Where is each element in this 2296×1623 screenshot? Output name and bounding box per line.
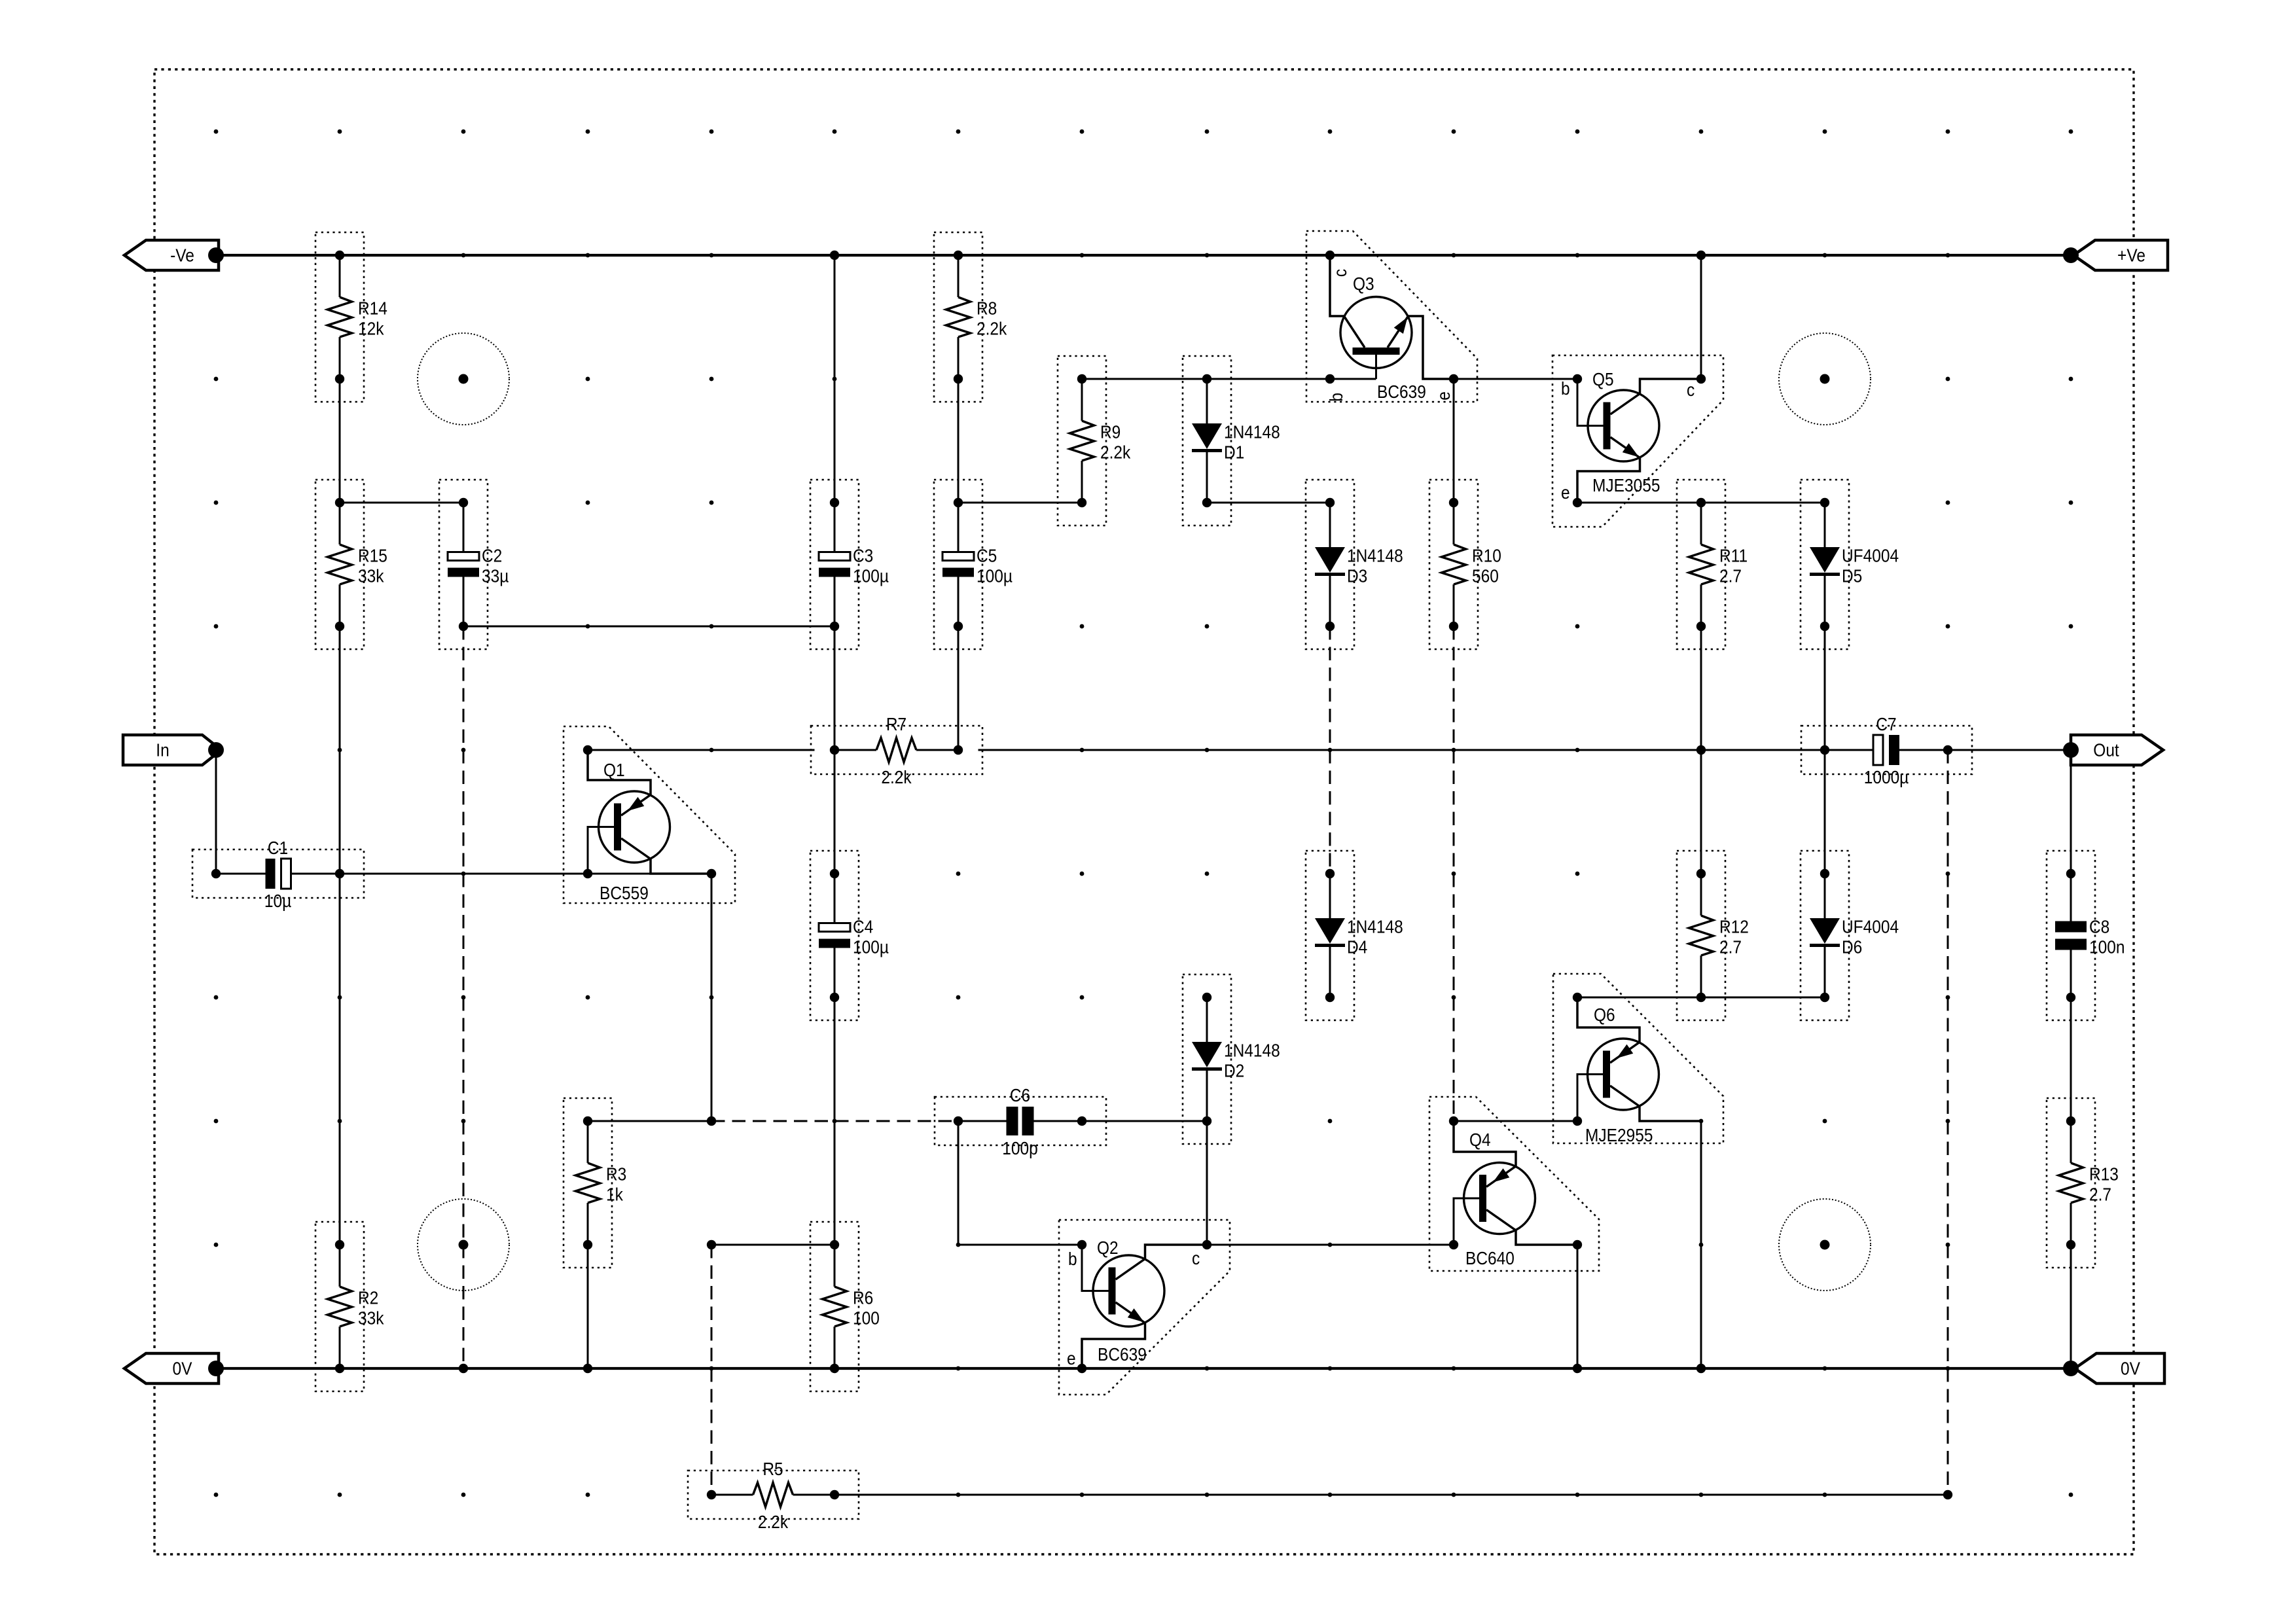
junction (2599,390)	[1696, 251, 1706, 260]
junction (2976,2284)	[1943, 1490, 1952, 1499]
junction (519,2091)	[335, 1364, 344, 1373]
junction (2410,1902)	[1573, 1240, 1582, 1249]
svg-text:R5: R5	[762, 1458, 783, 1479]
svg-text:b: b	[1561, 378, 1570, 399]
junction (1464,1713)	[954, 1116, 963, 1126]
svg-text:100µ: 100µ	[853, 936, 889, 957]
wire c15 Out-C8	[2070, 750, 2072, 874]
wire C2 column bottom	[463, 577, 465, 626]
wire r11 R5-east	[834, 1494, 1948, 1496]
wire c13 C7-D6	[1824, 750, 1826, 874]
junction (1653,1713)	[1077, 1116, 1086, 1126]
svg-text:Q5: Q5	[1592, 368, 1614, 389]
transistor Q5 MJE3055	[1552, 355, 1723, 527]
svg-text:2.7: 2.7	[1719, 936, 1742, 957]
svg-text:100: 100	[853, 1308, 880, 1329]
junction (2599,1146)	[1696, 745, 1706, 755]
svg-text:1N4148: 1N4148	[1224, 421, 1280, 442]
junction (2032,1524)	[1325, 993, 1335, 1002]
svg-text:R13: R13	[2089, 1164, 2119, 1185]
svg-text:b: b	[1325, 393, 1346, 402]
svg-text:2.2k: 2.2k	[758, 1511, 789, 1532]
svg-text:MJE2955: MJE2955	[1585, 1124, 1653, 1145]
junction (1844,1713)	[1202, 1116, 1211, 1126]
svg-text:10µ: 10µ	[264, 890, 291, 911]
junction (1464,957)	[954, 622, 963, 631]
capacitor C8	[2047, 851, 2125, 1020]
junction (2032,1335)	[1325, 869, 1335, 878]
junction (2599,1335)	[1696, 869, 1706, 878]
junction (2032,957)	[1325, 622, 1335, 631]
junction (1275,1524)	[830, 993, 839, 1002]
junction (3164,1524)	[2066, 993, 2075, 1002]
wire c5 C3-R7	[834, 577, 836, 750]
wire c5 R7-C4	[834, 750, 836, 874]
wire In drop	[215, 750, 217, 874]
svg-text:b: b	[1068, 1248, 1077, 1269]
junction (2032,768)	[1325, 498, 1335, 507]
wire c12 R11-R12	[1700, 626, 1702, 874]
junction (3164,1902)	[2066, 1240, 2075, 1249]
junction (2410,1713)	[1573, 1116, 1582, 1126]
svg-text:-Ve: -Ve	[170, 245, 194, 266]
junction (1464,390)	[954, 251, 963, 260]
wire r3 Q5e-D5	[1577, 502, 1825, 504]
transistor Q4 BC640	[1429, 1097, 1599, 1271]
wire c15 C8-R13	[2070, 997, 2072, 1121]
junction (1275,2284)	[830, 1490, 839, 1499]
svg-text:R12: R12	[1719, 916, 1749, 937]
junction (2032,579)	[1325, 374, 1335, 383]
junction (2788,1524)	[1820, 993, 1829, 1002]
wire mid row R7-C7	[978, 749, 1874, 751]
svg-text:C1: C1	[268, 837, 288, 858]
svg-text:BC559: BC559	[600, 882, 649, 903]
resistor R8	[934, 232, 1007, 402]
junction (2788,1146)	[1820, 745, 1829, 755]
dashed wire r8 to C6	[711, 1120, 958, 1122]
wire c1 R14-R15	[339, 346, 341, 537]
svg-text:Q3: Q3	[1353, 273, 1374, 294]
junction (1087,1902)	[707, 1240, 716, 1249]
resistor R15	[315, 480, 387, 649]
diode D5	[1801, 480, 1899, 649]
diode D4	[1306, 851, 1403, 1020]
transistor Q6 MJE2955	[1553, 974, 1723, 1145]
junction (519,957)	[335, 622, 344, 631]
svg-text:1000µ: 1000µ	[1864, 766, 1909, 787]
wire r2 Q3e-Q5b	[1454, 378, 1577, 380]
terminal flag Out	[2071, 735, 2163, 765]
wire c3 R3-0V	[587, 1245, 589, 1368]
junction (2976,1146)	[1943, 745, 1952, 755]
junction (708,957)	[459, 622, 468, 631]
wire c5 C4-R6	[834, 997, 836, 1279]
svg-text:C4: C4	[853, 916, 873, 937]
wire R15-C2 link	[340, 502, 463, 504]
wire c12 rail-Q5c	[1700, 255, 1702, 379]
resistor R5	[688, 1458, 859, 1532]
junction (1844,1902)	[1202, 1240, 1211, 1249]
junction (1844,579)	[1202, 374, 1211, 383]
svg-text:Q6: Q6	[1594, 1004, 1615, 1025]
wire r9 Q2c-Q4b	[1207, 1244, 1454, 1246]
wire C2 column top	[463, 503, 465, 552]
mounting hole top-left	[418, 333, 509, 425]
junction (2599,579)	[1696, 374, 1706, 383]
wire r2 R9-Q3b	[1082, 378, 1376, 380]
dashed wire C2-0V	[463, 626, 465, 1368]
svg-text:2.2k: 2.2k	[1100, 442, 1131, 463]
wire r8 C6-D2	[1082, 1120, 1207, 1122]
node -Ve terminal	[208, 247, 224, 263]
junction (1844,1524)	[1202, 993, 1211, 1002]
junction (898,1335)	[583, 869, 592, 878]
junction (2221,1713)	[1449, 1116, 1458, 1126]
wire c11 Q4c drop	[1577, 1245, 1579, 1368]
svg-text:+Ve: +Ve	[2117, 245, 2145, 266]
svg-text:D1: D1	[1224, 442, 1244, 463]
svg-text:33k: 33k	[358, 1308, 384, 1329]
wire c4 Q1c drop	[711, 874, 713, 1121]
junction (2410,1524)	[1573, 993, 1582, 1002]
junction (708,768)	[459, 498, 468, 507]
node 0V left terminal	[208, 1361, 224, 1376]
svg-text:BC640: BC640	[1465, 1247, 1515, 1268]
svg-text:D3: D3	[1347, 565, 1367, 586]
wire Q3e-R10	[1453, 379, 1455, 503]
svg-text:C8: C8	[2089, 916, 2109, 937]
svg-text:Out: Out	[2093, 740, 2119, 760]
wire r8 Q4e-Q6b	[1454, 1120, 1577, 1122]
resistor R10	[1429, 480, 1501, 649]
svg-text:12k: 12k	[358, 318, 384, 339]
capacitor C5	[934, 480, 1013, 649]
svg-text:e: e	[1561, 482, 1570, 503]
svg-text:100n: 100n	[2089, 936, 2125, 957]
svg-text:100p: 100p	[1002, 1137, 1037, 1158]
wire c1 R15-C1	[339, 593, 341, 874]
terminal flag 0V right	[2075, 1353, 2164, 1383]
wire c6 R8-C5	[958, 346, 960, 553]
dashed wire c4 to R5	[711, 1245, 713, 1495]
svg-text:1N4148: 1N4148	[1224, 1040, 1280, 1061]
wire c6 C6-Q2b	[958, 1121, 1082, 1245]
junction (519,390)	[335, 251, 344, 260]
wire c13 D5-C7	[1824, 626, 1826, 750]
wire c6 C5-R7	[958, 577, 960, 750]
junction (1275,957)	[830, 622, 839, 631]
junction (519,768)	[335, 498, 344, 507]
svg-text:C7: C7	[1876, 713, 1896, 734]
svg-text:R15: R15	[358, 545, 387, 566]
capacitor C2	[439, 480, 509, 649]
svg-text:100µ: 100µ	[853, 565, 889, 586]
junction (3164,1713)	[2066, 1116, 2075, 1126]
mounting hole top-right	[1779, 333, 1871, 425]
wire c8 D2-Q2c	[1206, 1121, 1208, 1245]
junction (2599,1524)	[1696, 993, 1706, 1002]
resistor R12	[1677, 851, 1749, 1020]
svg-text:C3: C3	[853, 545, 873, 566]
junction (1087,1335)	[707, 869, 716, 878]
transistor Q1 BC559	[564, 726, 735, 903]
svg-text:MJE3055: MJE3055	[1592, 474, 1660, 495]
wire r3 C5-R9	[958, 502, 1082, 504]
svg-text:100µ: 100µ	[977, 565, 1013, 586]
resistor R9	[1058, 356, 1131, 526]
junction (1275,1335)	[830, 869, 839, 878]
svg-text:R3: R3	[606, 1164, 626, 1185]
svg-text:In: In	[156, 740, 169, 760]
junction (2599,768)	[1696, 498, 1706, 507]
wire r8 R3 link	[588, 1120, 711, 1122]
transistor Q3 BC639	[1306, 231, 1477, 402]
svg-text:0V: 0V	[173, 1358, 192, 1379]
svg-text:e: e	[1067, 1347, 1076, 1368]
wire input row r6	[291, 873, 711, 875]
junction (898,1713)	[583, 1116, 592, 1126]
svg-text:UF4004: UF4004	[1842, 916, 1899, 937]
svg-text:0V: 0V	[2121, 1358, 2140, 1379]
wire c1 C1-R2	[339, 874, 341, 1279]
wire -Ve/+Ve rail	[216, 254, 2071, 257]
junction (2788,1335)	[1820, 869, 1829, 878]
wire r4 C2-C3	[463, 626, 834, 628]
mounting hole bottom-right	[1779, 1199, 1871, 1291]
svg-text:2.7: 2.7	[1719, 565, 1742, 586]
svg-text:C5: C5	[977, 545, 997, 566]
wire c5 rail-C3	[834, 255, 836, 552]
junction (2410,579)	[1573, 374, 1582, 383]
svg-text:1k: 1k	[606, 1184, 624, 1205]
svg-text:c: c	[1687, 379, 1695, 400]
svg-text:33µ: 33µ	[482, 565, 509, 586]
junction (2221,768)	[1449, 498, 1458, 507]
junction (519,1902)	[335, 1240, 344, 1249]
wire r3 D1-D3	[1207, 502, 1330, 504]
svg-text:c: c	[1329, 269, 1350, 277]
svg-text:C2: C2	[482, 545, 502, 566]
diode D2	[1183, 974, 1280, 1144]
diode D1	[1183, 356, 1280, 526]
junction (898,1146)	[583, 745, 592, 755]
resistor R13	[2047, 1098, 2119, 1268]
svg-text:1N4148: 1N4148	[1347, 916, 1403, 937]
wire 0V rail	[216, 1367, 2071, 1370]
junction (1275,390)	[830, 251, 839, 260]
node 0V right terminal	[2063, 1361, 2079, 1376]
junction (1275,1146)	[830, 745, 839, 755]
svg-text:R7: R7	[886, 713, 906, 734]
junction (1844,768)	[1202, 498, 1211, 507]
junction (1464,768)	[954, 498, 963, 507]
terminal flag -Ve	[124, 240, 219, 270]
junction (3164,1335)	[2066, 869, 2075, 878]
svg-text:33k: 33k	[358, 565, 384, 586]
wire c15 R13-0V	[2070, 1245, 2072, 1368]
wire c12 Q6c drop	[1700, 1121, 1702, 1368]
svg-text:R11: R11	[1719, 545, 1748, 566]
svg-text:2.2k: 2.2k	[977, 318, 1007, 339]
junction (2410,768)	[1573, 498, 1582, 507]
svg-text:e: e	[1433, 391, 1454, 401]
svg-text:UF4004: UF4004	[1842, 545, 1899, 566]
junction (1275,1902)	[830, 1240, 839, 1249]
svg-text:R6: R6	[853, 1287, 873, 1308]
junction (1087,1713)	[707, 1116, 716, 1126]
junction (1464,579)	[954, 374, 963, 383]
junction (2221,1902)	[1449, 1240, 1458, 1249]
junction (519,579)	[335, 374, 344, 383]
capacitor C3	[810, 480, 889, 649]
junction (898,2091)	[583, 1364, 592, 1373]
wire r9 R5-R6 link	[711, 1244, 834, 1246]
dashed wire C7-R5 east	[1947, 750, 1949, 1495]
terminal flag In	[123, 735, 221, 765]
terminal flag +Ve	[2073, 240, 2168, 270]
capacitor C6	[935, 1084, 1106, 1158]
junction (2599,957)	[1696, 622, 1706, 631]
svg-text:R2: R2	[358, 1287, 378, 1308]
terminal flag 0V left	[124, 1353, 219, 1383]
junction (2788,768)	[1820, 498, 1829, 507]
mounting hole bottom-left	[418, 1199, 509, 1291]
wire r7 Q6e-D6	[1577, 997, 1825, 999]
resistor R2	[315, 1222, 384, 1391]
junction (2788,957)	[1820, 622, 1829, 631]
node +Ve terminal	[2063, 247, 2079, 263]
dashed wire D3-D4	[1329, 626, 1331, 874]
junction (708,2091)	[459, 1364, 468, 1373]
svg-text:BC639: BC639	[1098, 1344, 1147, 1364]
svg-text:R14: R14	[358, 298, 387, 319]
svg-text:2.7: 2.7	[2089, 1184, 2111, 1205]
diode D6	[1801, 851, 1899, 1020]
svg-text:BC639: BC639	[1377, 381, 1426, 402]
resistor R3	[564, 1098, 626, 1268]
junction (330,1335)	[211, 869, 221, 878]
svg-text:Q1: Q1	[603, 759, 625, 780]
node In terminal	[208, 742, 224, 758]
svg-text:D2: D2	[1224, 1060, 1244, 1081]
svg-text:c: c	[1192, 1247, 1200, 1268]
junction (2221,579)	[1449, 374, 1458, 383]
resistor R14	[315, 232, 387, 402]
svg-text:C6: C6	[1010, 1084, 1030, 1105]
diode D3	[1306, 480, 1403, 649]
junction (2032,390)	[1325, 251, 1335, 260]
wire mid row Q1e-R7	[588, 749, 815, 751]
junction (2599,2091)	[1696, 1364, 1706, 1373]
svg-text:560: 560	[1472, 565, 1499, 586]
junction (1087,2284)	[707, 1490, 716, 1499]
svg-text:D6: D6	[1842, 936, 1862, 957]
junction (1653,579)	[1077, 374, 1086, 383]
svg-text:D5: D5	[1842, 565, 1862, 586]
junction (1275,768)	[830, 498, 839, 507]
junction (1653,2091)	[1077, 1364, 1086, 1373]
junction (2410,2091)	[1573, 1364, 1582, 1373]
dashed wire R10-Q4e	[1453, 626, 1455, 1121]
junction (519,1335)	[335, 869, 344, 878]
junction (1653,1902)	[1077, 1240, 1086, 1249]
svg-text:Q2: Q2	[1097, 1237, 1119, 1258]
junction (898,1902)	[583, 1240, 592, 1249]
svg-text:D4: D4	[1347, 936, 1367, 957]
svg-text:1N4148: 1N4148	[1347, 545, 1403, 566]
capacitor C1	[192, 837, 364, 911]
junction (1464,1146)	[954, 745, 963, 755]
wire C1 left lead	[216, 873, 265, 875]
resistor R6	[810, 1222, 880, 1391]
svg-text:Q4: Q4	[1469, 1129, 1491, 1150]
svg-text:2.2k: 2.2k	[881, 766, 912, 787]
svg-text:R8: R8	[977, 298, 997, 319]
svg-text:R10: R10	[1472, 545, 1501, 566]
transistor Q2 BC639	[1059, 1220, 1230, 1395]
wire mid row C7-Out	[1899, 749, 2071, 751]
capacitor C7	[1801, 713, 1972, 787]
svg-text:R9: R9	[1100, 421, 1121, 442]
capacitor C4	[810, 851, 889, 1020]
junction (1653,768)	[1077, 498, 1086, 507]
junction (2221,957)	[1449, 622, 1458, 631]
resistor R11	[1677, 480, 1748, 649]
resistor R7	[811, 713, 982, 787]
junction (1275,2091)	[830, 1364, 839, 1373]
node Out terminal	[2063, 742, 2079, 758]
